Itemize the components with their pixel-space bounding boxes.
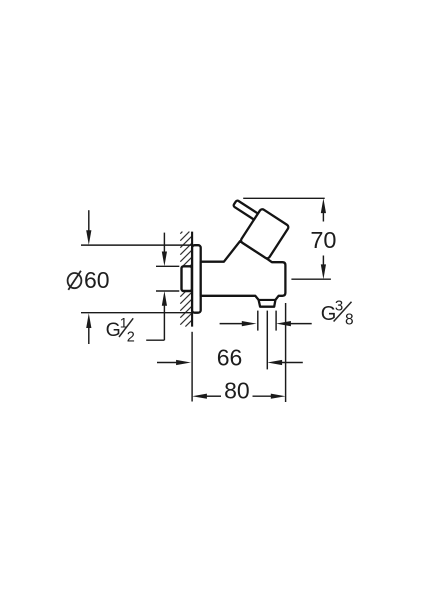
70 bottom arrow [322,256,324,266]
svg-text:1: 1 [120,315,128,331]
dim ext line G12 top [156,265,179,267]
svg-text:8: 8 [345,312,354,329]
66 left arrow [157,362,178,364]
svg-text:66: 66 [217,345,243,371]
svg-text:2: 2 [127,329,135,345]
valve body [201,241,286,307]
66 right arrow [281,362,303,364]
dim ext line G12 bottom [156,290,179,292]
G38 left arrow [220,323,243,325]
D60 top arrow [88,210,90,232]
G1/2 wall connection [182,266,192,291]
G12 top arrow [163,233,165,253]
svg-text:80: 80 [224,378,250,404]
dim ext line D60 top [81,244,192,246]
dim ext line 70 top [243,197,325,199]
label G38 [321,297,354,328]
wall surface line [191,232,193,327]
label G12 [106,315,135,346]
dim ext line 70 bottom [291,278,331,280]
handle stem [233,200,259,220]
handle cylinder [240,208,289,259]
body edge ext line [285,303,287,402]
outlet centerline [266,311,268,370]
G38 right arrow [290,323,312,325]
wall hatching upper [180,232,192,267]
svg-text:60: 60 [84,267,110,293]
wall hatching lower [180,291,192,327]
svg-text:70: 70 [310,227,336,253]
70 top arrow [322,212,324,222]
G12 bottom arrow with leader [163,305,165,341]
80 right arrow [253,395,273,397]
label D60 [68,267,110,293]
wall ext line [191,332,193,402]
flange [192,245,201,313]
svg-text:G: G [106,319,121,341]
dim ext line outlet left [257,311,259,331]
D60 bottom arrow [88,326,90,344]
dim ext line D60 bottom [81,312,192,314]
outlet rim [259,299,276,301]
80 left arrow [206,395,222,397]
dim ext line outlet right [275,311,277,331]
